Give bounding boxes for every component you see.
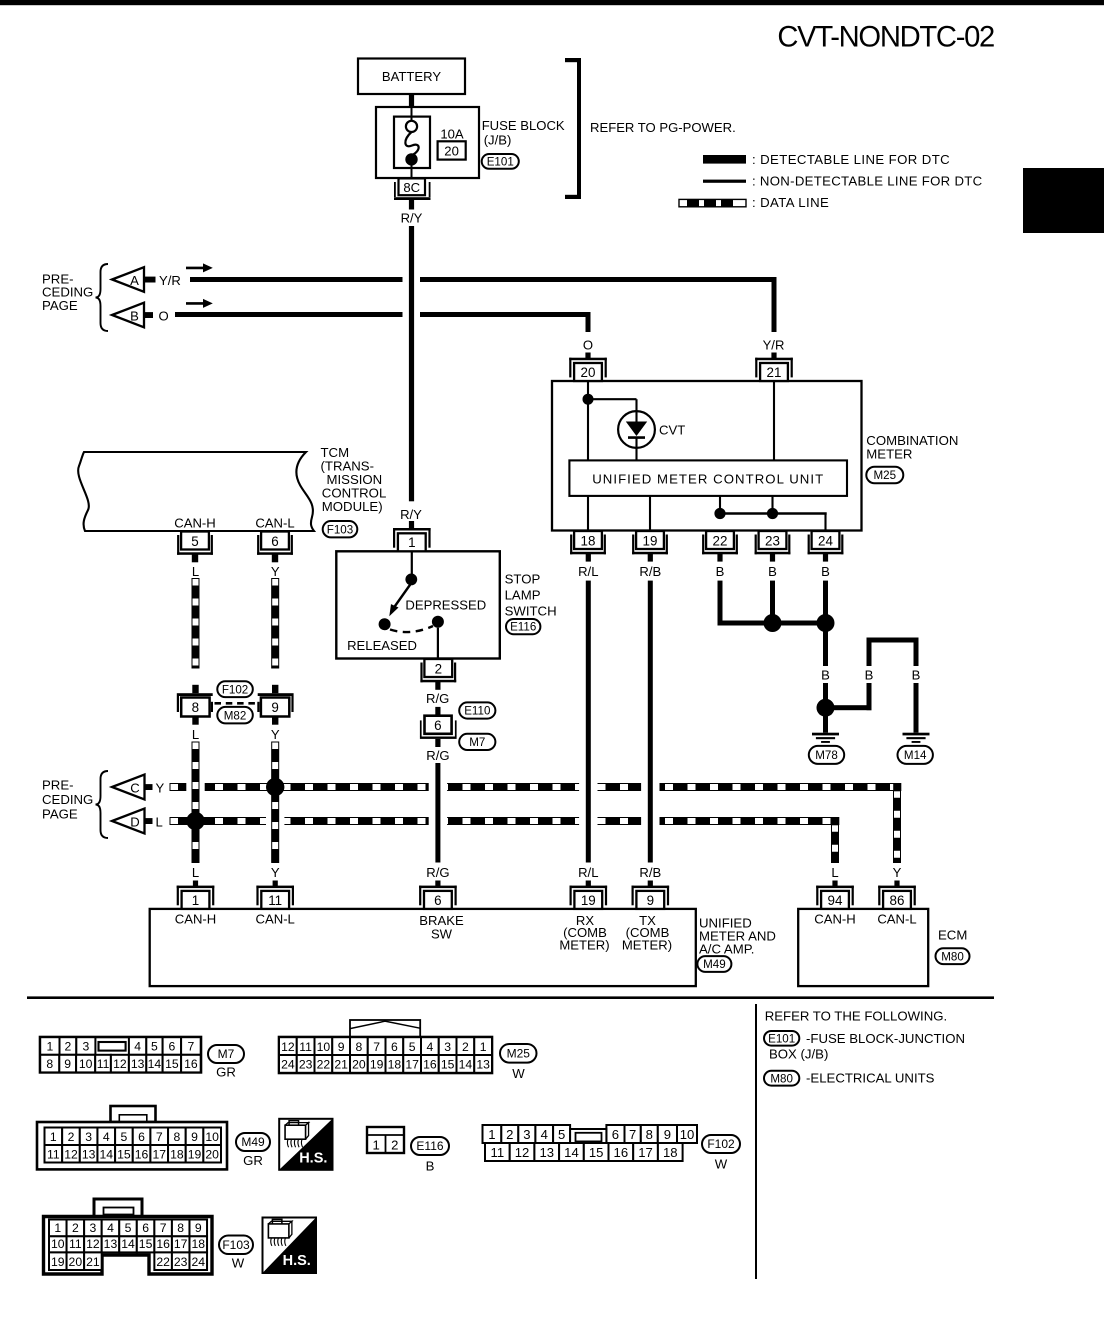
svg-text:C: C [130,780,139,795]
legend detectable line [703,155,746,164]
CVT indicator lamp (LED) [618,411,655,448]
svg-text:LAMP: LAMP [505,588,541,603]
pin 20 [569,358,607,361]
svg-text:3: 3 [444,1040,451,1054]
svg-text:8: 8 [355,1040,362,1054]
svg-text:B: B [426,1159,435,1174]
svg-text:R/G: R/G [426,691,449,706]
svg-text:W: W [232,1256,245,1271]
svg-text:11: 11 [491,1145,505,1160]
connector ref F102 [217,681,253,697]
fuse block E101 box [376,107,479,178]
svg-text:ECM: ECM [938,928,967,943]
svg-text:R/Y: R/Y [401,210,423,225]
svg-text:4: 4 [541,1127,548,1142]
corner pieces [893,783,901,791]
svg-text:Y: Y [271,727,280,742]
svg-text:E116: E116 [416,1139,443,1153]
svg-text:19: 19 [643,533,658,548]
svg-text:M7: M7 [469,736,485,749]
separator line [27,996,994,999]
svg-text:L: L [156,814,163,829]
svg-text:E110: E110 [464,705,490,718]
svg-text:: DATA LINE: : DATA LINE [752,195,829,210]
svg-text:E101: E101 [768,1032,795,1045]
unified meter and a/c amp box M49 [150,909,696,986]
svg-text:BATTERY: BATTERY [382,69,441,84]
connector ref M25 [500,1044,537,1063]
svg-text:7: 7 [160,1221,167,1235]
svg-text:16: 16 [135,1147,149,1161]
svg-text:6: 6 [168,1040,175,1054]
svg-text:R/B: R/B [639,564,661,579]
pin 6 [261,532,289,550]
svg-text:6: 6 [612,1127,619,1142]
svg-text:D: D [130,814,139,829]
svg-text:E116: E116 [510,621,536,634]
svg-text:7: 7 [156,1130,163,1144]
connector ref M7 [459,734,495,750]
connector ref M49 [697,956,731,972]
svg-text:9: 9 [271,700,278,715]
svg-text:14: 14 [564,1145,579,1160]
svg-text:19: 19 [370,1058,384,1072]
svg-text:B: B [865,667,874,682]
svg-text:L: L [192,865,199,880]
svg-text:16: 16 [184,1057,198,1071]
svg-text:17: 17 [152,1147,166,1161]
svg-text:2: 2 [435,661,442,676]
svg-text:CVT-NONDTC-02: CVT-NONDTC-02 [777,22,994,54]
top border bar [0,0,1104,5]
ground ref M78 [809,746,844,764]
svg-text:F103: F103 [327,523,353,536]
svg-text:19: 19 [188,1147,202,1161]
svg-text:20: 20 [444,143,459,158]
svg-text:E101: E101 [487,156,514,169]
svg-text:11: 11 [69,1237,82,1251]
svg-text:O: O [159,308,169,323]
svg-text:9: 9 [338,1040,345,1054]
svg-text:10A: 10A [440,127,464,142]
svg-text:4: 4 [103,1130,110,1144]
wire pin24 B [823,553,828,561]
data line to ECM 86 (Y) [894,791,901,863]
svg-text:6: 6 [391,1040,398,1054]
svg-text:2: 2 [462,1040,469,1054]
svg-text:4: 4 [426,1040,433,1054]
svg-text:15: 15 [165,1057,179,1071]
TCM module (torn box) F103 [78,452,314,531]
brace [96,771,109,838]
svg-text:11: 11 [268,893,282,908]
svg-text:5: 5 [191,534,198,549]
svg-text:24: 24 [281,1058,295,1072]
svg-text:6: 6 [434,893,441,908]
svg-text:8C: 8C [403,180,420,195]
off-page arrow A [112,267,144,292]
junction dots [714,508,725,519]
pin 2 [424,659,452,677]
svg-text:16: 16 [156,1237,170,1251]
svg-text:B: B [821,564,830,579]
svg-text:5: 5 [151,1040,158,1054]
data line D (L) [170,818,839,825]
svg-text:1: 1 [50,1130,57,1144]
svg-text:FUSE BLOCK: FUSE BLOCK [482,118,565,133]
svg-text:BOX (J/B): BOX (J/B) [769,1047,828,1062]
svg-text:22: 22 [713,533,728,548]
svg-text:Y: Y [271,865,280,880]
svg-text:6: 6 [138,1130,145,1144]
svg-text:R/G: R/G [426,748,449,763]
brace [96,264,109,331]
svg-text:B: B [912,667,921,682]
svg-text:1: 1 [480,1040,487,1054]
pin 1 [393,528,431,531]
branch wire to M14 [826,705,872,710]
svg-text:9: 9 [664,1127,671,1142]
pin 21 [755,358,793,361]
svg-text:14: 14 [121,1237,135,1251]
junction dot CAN-L / C [266,778,284,796]
connector 9 (F102/M82) [272,685,278,693]
svg-text:COMBINATION: COMBINATION [866,433,958,448]
legend data line [679,199,746,206]
crossing gaps [186,782,204,791]
svg-text:5: 5 [121,1130,128,1144]
svg-text:5: 5 [409,1040,416,1054]
svg-text:METER): METER) [559,937,609,952]
connector ref M25 [866,467,903,484]
svg-text:CAN-H: CAN-H [175,912,216,927]
svg-text:Y/R: Y/R [159,273,181,288]
pin 6 [419,886,457,889]
svg-text:SWITCH: SWITCH [505,603,557,618]
svg-text:METER: METER [866,447,912,462]
off-page arrow B [112,303,144,328]
svg-text:(J/B): (J/B) [484,133,512,148]
svg-text:10: 10 [317,1040,331,1054]
connector ref F102 [702,1135,740,1153]
svg-text:B: B [130,308,139,323]
data line C (Y) [170,784,901,791]
svg-text:F102: F102 [707,1137,735,1151]
wire pin22 B [717,553,722,561]
svg-text:1: 1 [373,1137,380,1152]
svg-text:12: 12 [515,1145,530,1160]
svg-text:20: 20 [581,365,596,380]
svg-text:24: 24 [818,533,833,548]
wire pin23 B [770,553,775,561]
pin 19 [570,886,608,889]
svg-text:5: 5 [558,1127,565,1142]
svg-text:PAGE: PAGE [42,298,78,313]
svg-text:Y: Y [893,865,902,880]
unified meter control unit box [569,460,847,496]
svg-text:M78: M78 [815,749,838,762]
svg-text:REFER TO PG-POWER.: REFER TO PG-POWER. [590,120,736,135]
svg-text:M49: M49 [703,958,726,971]
H.S. icon 1 [279,1119,332,1170]
svg-text:MODULE): MODULE) [322,499,383,514]
svg-text:M80: M80 [770,1072,793,1085]
svg-text:1: 1 [192,893,199,908]
pin 94 [816,886,854,889]
svg-text:CAN-H: CAN-H [814,912,855,927]
svg-text:13: 13 [476,1058,490,1072]
svg-text:12: 12 [64,1147,78,1161]
svg-text:10: 10 [79,1057,93,1071]
svg-text:M25: M25 [874,469,897,482]
svg-text:13: 13 [131,1057,145,1071]
svg-text:16: 16 [423,1058,437,1072]
svg-text:12: 12 [113,1057,127,1071]
svg-text:M7: M7 [218,1047,235,1061]
svg-text:23: 23 [174,1255,188,1269]
svg-text:GR: GR [243,1153,263,1168]
legend non-detectable line [703,180,746,183]
data line to ECM 94 (L) [832,825,839,863]
svg-text:21: 21 [767,365,782,380]
svg-text:1: 1 [54,1221,61,1235]
bracket refer to pg-power [577,58,581,199]
svg-text:: DETECTABLE LINE FOR DTC: : DETECTABLE LINE FOR DTC [752,152,950,167]
svg-text:7: 7 [629,1127,636,1142]
connector ref M82 [217,707,253,724]
H.S. icon 2 [263,1218,317,1274]
svg-text:24: 24 [191,1255,205,1269]
fuse number 20 box [438,141,466,159]
svg-text:22: 22 [317,1058,331,1072]
svg-text:2: 2 [506,1127,513,1142]
svg-text:15: 15 [117,1147,131,1161]
svg-text:12: 12 [281,1040,295,1054]
svg-text:6: 6 [434,718,441,733]
svg-text:2: 2 [65,1040,72,1054]
connector ref M80 [936,948,970,964]
svg-text:8: 8 [192,700,199,715]
svg-text:17: 17 [405,1058,419,1072]
wire stub below 8C [409,200,414,210]
svg-text:15: 15 [139,1237,153,1251]
svg-text:18: 18 [191,1237,205,1251]
svg-text:L: L [192,727,199,742]
fuse F 10A inner box [394,117,430,168]
mating dashes 8-9 [215,702,257,705]
svg-text:M49: M49 [241,1135,265,1149]
svg-text:18: 18 [388,1058,402,1072]
svg-text:UNIFIED METER CONTROL UNIT: UNIFIED METER CONTROL UNIT [592,471,824,486]
svg-text:METER): METER) [622,937,672,952]
svg-text:-ELECTRICAL UNITS: -ELECTRICAL UNITS [806,1071,935,1086]
connector view F102 [483,1125,502,1143]
connector 8C (J/B terminal) [399,178,426,195]
svg-text:19: 19 [581,893,596,908]
svg-text:9: 9 [647,893,654,908]
svg-text:M82: M82 [224,709,247,722]
svg-text:18: 18 [581,533,596,548]
svg-text:Y: Y [271,564,280,579]
svg-text:1: 1 [488,1127,495,1142]
pin 9 [632,886,670,889]
direction arrow [186,302,204,305]
ground M14 [903,733,930,736]
svg-text:22: 22 [156,1255,170,1269]
key tab [350,1020,420,1037]
wire to ground M78 [823,715,828,733]
svg-text:10: 10 [205,1130,219,1144]
svg-text:R/L: R/L [578,865,598,880]
data line CAN-L vertical [272,579,279,669]
svg-text:6: 6 [142,1221,149,1235]
svg-text:2: 2 [68,1130,75,1144]
svg-text:F102: F102 [222,683,248,696]
junction dots [764,614,782,632]
svg-text:23: 23 [299,1058,313,1072]
fuse symbol 10A [406,121,417,132]
svg-text:GR: GR [216,1065,236,1080]
wire R/Y vertical [409,226,414,501]
svg-text:B: B [821,667,830,682]
svg-text:21: 21 [86,1255,100,1269]
svg-text:1: 1 [408,535,415,550]
connector 8 (F102/M82) [192,685,198,693]
svg-text:3: 3 [90,1221,97,1235]
connector view E116 [367,1127,404,1153]
ground ref M14 [898,746,933,764]
svg-text:CAN-L: CAN-L [256,912,295,927]
svg-text:B: B [716,564,725,579]
junction dot [583,394,594,405]
svg-text:L: L [192,564,199,579]
svg-text:7: 7 [188,1040,195,1054]
svg-text:9: 9 [195,1221,202,1235]
svg-text:F103: F103 [222,1238,250,1252]
wire R/B vertical [648,553,653,561]
key slot [99,1042,126,1051]
connector ref M7 [208,1045,244,1063]
refer panel divider [755,1004,757,1279]
svg-text:R/L: R/L [578,564,598,579]
svg-text:CAN-L: CAN-L [877,912,916,927]
svg-text:H.S.: H.S. [299,1151,327,1167]
svg-text:15: 15 [441,1058,455,1072]
pin 86 [878,886,916,889]
svg-text:Y/R: Y/R [763,338,785,353]
svg-text:: NON-DETECTABLE LINE FOR DTC: : NON-DETECTABLE LINE FOR DTC [752,174,983,189]
data line CAN-H vertical [192,579,199,669]
junction dot CAN-H / D [186,812,204,830]
connector ref E101 [482,154,519,169]
ground M78 [812,733,839,736]
wires below UMCU [587,496,589,531]
svg-text:PRE-: PRE- [42,778,74,793]
svg-text:11: 11 [47,1147,60,1161]
pin 11 [256,886,294,889]
svg-text:Y: Y [156,780,165,795]
svg-text:STOP: STOP [505,572,541,587]
svg-text:12: 12 [86,1237,100,1251]
svg-text:18: 18 [170,1147,184,1161]
svg-text:2: 2 [391,1137,398,1152]
direction arrow [186,267,204,270]
svg-text:9: 9 [64,1057,71,1071]
svg-text:21: 21 [334,1058,348,1072]
svg-text:11: 11 [97,1057,110,1071]
wire fuse to 8C [411,165,413,178]
svg-text:19: 19 [51,1255,65,1269]
svg-text:CVT: CVT [659,422,685,437]
svg-text:DEPRESSED: DEPRESSED [405,597,486,612]
combination meter box M25 [552,381,862,531]
svg-text:5: 5 [125,1221,132,1235]
svg-text:8: 8 [646,1127,653,1142]
wire battery to fuse block [409,94,414,107]
svg-text:11: 11 [299,1040,312,1054]
svg-text:8: 8 [177,1221,184,1235]
svg-text:14: 14 [459,1058,473,1072]
connector ref E101 [764,1031,799,1046]
meter bottom pins 18 19 22 23 24 [574,531,602,549]
wire R/L vertical [586,553,591,561]
svg-text:CEDING: CEDING [42,792,93,807]
svg-text:REFER TO THE FOLLOWING.: REFER TO THE FOLLOWING. [765,1008,947,1023]
svg-text:3: 3 [523,1127,530,1142]
connector ref M49 [236,1133,270,1151]
connector view M7 [40,1037,201,1072]
svg-text:16: 16 [614,1145,629,1160]
wire pin21 down [773,381,775,460]
svg-text:20: 20 [69,1255,83,1269]
key tab [111,1106,156,1122]
svg-text:15: 15 [589,1145,604,1160]
svg-text:4: 4 [107,1221,114,1235]
svg-text:4: 4 [134,1040,141,1054]
connector ref F103 [323,521,358,537]
connector ref F103 [219,1236,253,1255]
svg-text:CAN-L: CAN-L [255,515,294,530]
switch internals [411,551,413,574]
svg-text:20: 20 [352,1058,366,1072]
svg-text:M25: M25 [507,1046,531,1060]
svg-text:R/Y: R/Y [400,507,422,522]
svg-text:18: 18 [663,1145,678,1160]
svg-text:3: 3 [85,1130,92,1144]
off-page arrow D [112,809,145,834]
svg-text:1: 1 [46,1040,53,1054]
connector ref E116 [506,619,540,634]
svg-text:14: 14 [148,1057,162,1071]
svg-text:A: A [130,273,139,288]
svg-text:-FUSE BLOCK-JUNCTION: -FUSE BLOCK-JUNCTION [806,1031,965,1046]
svg-text:SW: SW [431,927,453,942]
svg-text:O: O [583,338,593,353]
svg-text:CAN-H: CAN-H [174,515,215,530]
wire into fuse [411,107,413,120]
svg-text:PAGE: PAGE [42,806,78,821]
svg-text:7: 7 [373,1040,380,1054]
svg-text:20: 20 [205,1147,219,1161]
svg-text:M80: M80 [941,950,964,963]
wire Y/R horizontal [190,277,403,282]
svg-text:13: 13 [82,1147,96,1161]
svg-text:17: 17 [174,1237,188,1251]
svg-text:W: W [715,1157,728,1172]
svg-text:94: 94 [828,893,843,908]
wire O horizontal [175,312,403,317]
battery B1 [358,59,465,95]
